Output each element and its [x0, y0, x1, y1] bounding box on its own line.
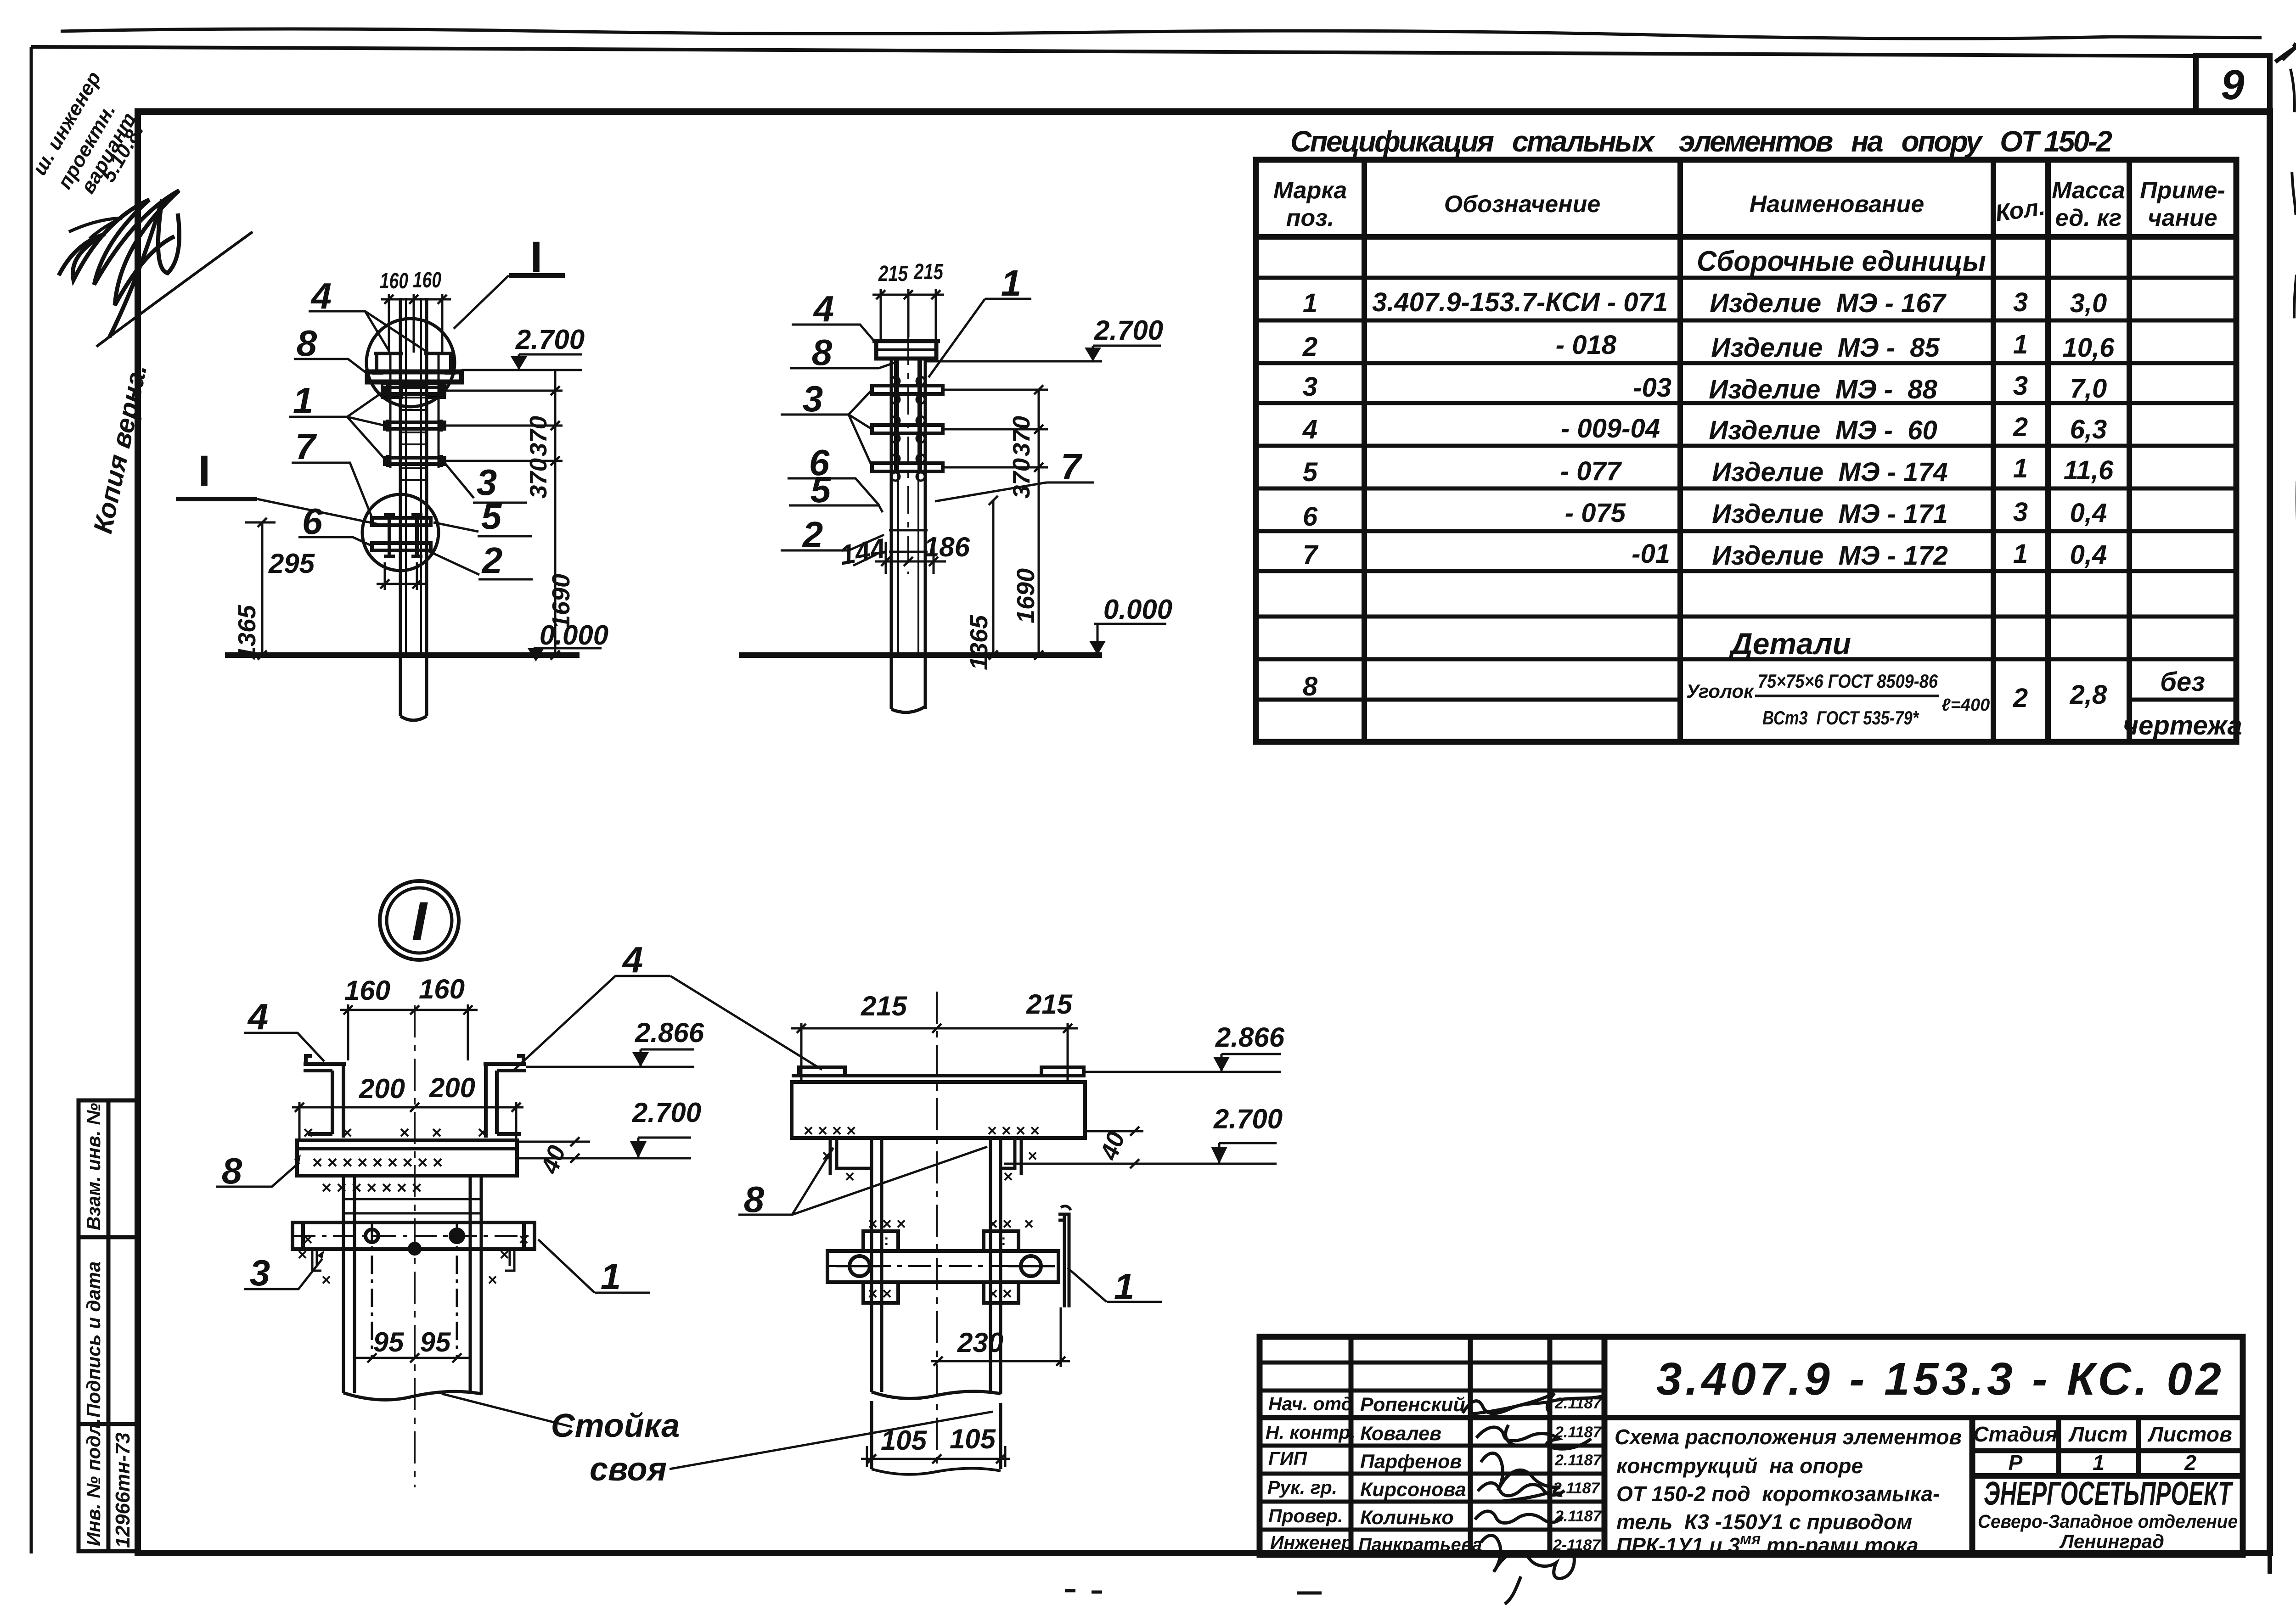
svg-text:1: 1	[2013, 454, 2028, 483]
svg-text:40: 40	[1095, 1128, 1130, 1164]
svg-text:8: 8	[297, 323, 317, 364]
svg-text:× ×: × ×	[988, 1284, 1012, 1303]
svg-text:×: ×	[303, 1123, 313, 1143]
svg-text:215: 215	[1026, 989, 1073, 1020]
svg-text:105: 105	[881, 1425, 928, 1456]
svg-text:2: 2	[802, 514, 823, 555]
svg-text:Ленинград: Ленинград	[2059, 1531, 2164, 1552]
svg-text:10,6: 10,6	[2063, 333, 2115, 363]
svg-text:7: 7	[1061, 446, 1083, 487]
svg-text:0,4: 0,4	[2070, 498, 2107, 528]
svg-text:I: I	[530, 233, 542, 281]
svg-text:× ×: × ×	[868, 1284, 892, 1303]
svg-text:2: 2	[2013, 683, 2028, 713]
svg-text:7: 7	[295, 426, 317, 467]
svg-text:2: 2	[481, 540, 503, 581]
svg-text:7: 7	[1303, 540, 1319, 570]
svg-text:2.700: 2.700	[632, 1097, 701, 1128]
svg-text:×: ×	[432, 1123, 442, 1143]
svg-text:370: 370	[525, 458, 552, 499]
svg-text:8: 8	[1303, 672, 1318, 701]
svg-text:×: ×	[321, 1270, 331, 1289]
svg-text:1: 1	[1114, 1266, 1135, 1307]
svg-text:2.1187: 2.1187	[1554, 1452, 1603, 1469]
svg-text:3,0: 3,0	[2070, 288, 2107, 318]
svg-text:Стойка: Стойка	[551, 1408, 680, 1444]
svg-text:ПРК-1У1 и 3мя тр-рами тока: ПРК-1У1 и 3мя тр-рами тока	[1616, 1531, 1919, 1557]
svg-text:5: 5	[1303, 457, 1318, 487]
svg-text:Ропенский: Ропенский	[1360, 1394, 1465, 1416]
svg-text:-03: -03	[1633, 373, 1671, 403]
svg-text:- 077: - 077	[1560, 456, 1622, 486]
svg-text:2: 2	[1302, 332, 1317, 362]
svg-text:Изделие МЭ - 60: Изделие МЭ - 60	[1709, 415, 1937, 445]
svg-text:×: ×	[342, 1123, 352, 1143]
svg-text:Северо-Западное отделение: Северо-Западное отделение	[1978, 1511, 2238, 1532]
svg-text:3: 3	[803, 378, 823, 419]
svg-text:конструкций на опоре: конструкций на опоре	[1616, 1454, 1863, 1478]
svg-text:×: ×	[1003, 1167, 1013, 1186]
svg-text:Инженер: Инженер	[1270, 1532, 1353, 1553]
svg-text:4: 4	[1302, 415, 1317, 444]
svg-text:Колинько: Колинько	[1360, 1507, 1454, 1529]
svg-text:Листов: Листов	[2147, 1422, 2232, 1446]
svg-text:370: 370	[525, 416, 552, 456]
svg-text:Масса: Масса	[2052, 177, 2125, 204]
svg-text:2.866: 2.866	[1215, 1022, 1285, 1053]
svg-text::: :	[1001, 1232, 1006, 1248]
svg-text:3: 3	[2013, 497, 2028, 527]
svg-text:Изделие МЭ - 172: Изделие МЭ - 172	[1712, 541, 1948, 571]
svg-text:× ×: × ×	[988, 1214, 1012, 1233]
svg-text:8: 8	[744, 1179, 765, 1220]
svg-text:ед. кг: ед. кг	[2055, 205, 2122, 231]
svg-text:ℓ=400: ℓ=400	[1941, 695, 1990, 715]
svg-text:8: 8	[812, 332, 833, 373]
svg-text:5: 5	[810, 469, 832, 510]
svg-text:4: 4	[622, 939, 643, 980]
svg-text:поз.: поз.	[1286, 205, 1334, 231]
svg-text:ВСт3 ГОСТ 535-79*: ВСт3 ГОСТ 535-79*	[1762, 707, 1919, 729]
svg-text:3: 3	[2013, 371, 2028, 401]
svg-text:-01: -01	[1632, 539, 1670, 569]
svg-text:1: 1	[293, 380, 314, 421]
svg-text:4: 4	[813, 288, 834, 329]
svg-text:чание: чание	[2148, 205, 2217, 231]
svg-text:1: 1	[2013, 539, 2028, 569]
svg-text:40: 40	[535, 1142, 571, 1178]
svg-text:Схема расположения элементов: Схема расположения элементов	[1615, 1425, 1962, 1449]
svg-text:Приме-: Приме-	[2140, 177, 2225, 204]
svg-text:×: ×	[1028, 1146, 1037, 1165]
svg-text:Р: Р	[2009, 1451, 2023, 1475]
svg-text:2-1187: 2-1187	[1553, 1536, 1601, 1554]
svg-text:× × × ×: × × × ×	[987, 1121, 1040, 1140]
svg-text:370: 370	[1008, 416, 1035, 456]
svg-text:своя: своя	[590, 1451, 667, 1488]
svg-text:× × × ×: × × × ×	[804, 1121, 856, 1140]
svg-text:- 075: - 075	[1565, 498, 1626, 528]
svg-text:8: 8	[222, 1150, 242, 1191]
svg-text:×: ×	[488, 1270, 497, 1289]
svg-text:- 018: - 018	[1556, 330, 1617, 360]
svg-text:144: 144	[837, 533, 888, 571]
svg-text:ЭНЕРГОСЕТЬПРОЕКТ: ЭНЕРГОСЕТЬПРОЕКТ	[1984, 1475, 2234, 1512]
svg-text:7,0: 7,0	[2070, 374, 2107, 404]
svg-text:1365: 1365	[233, 605, 261, 660]
svg-text:230: 230	[957, 1327, 1003, 1358]
svg-text:0.000: 0.000	[1103, 594, 1172, 625]
svg-text:Марка: Марка	[1273, 177, 1347, 204]
svg-text:×: ×	[519, 1230, 529, 1249]
svg-text:1690: 1690	[547, 574, 575, 629]
svg-text:Детали: Детали	[1728, 627, 1851, 661]
svg-text:Парфенов: Парфенов	[1360, 1451, 1462, 1473]
svg-text:ОТ 150-2 под короткозамыка-: ОТ 150-2 под короткозамыка-	[1616, 1482, 1940, 1506]
svg-text:Сборочные единицы: Сборочные единицы	[1697, 246, 1986, 277]
svg-text:× × × × × × ×: × × × × × × ×	[321, 1178, 422, 1198]
svg-text:1: 1	[1001, 263, 1022, 303]
svg-text:215: 215	[861, 991, 908, 1021]
svg-text:Панкратьева: Панкратьева	[1358, 1535, 1482, 1555]
svg-text:I: I	[411, 891, 428, 952]
svg-text:Взам. инв. №: Взам. инв. №	[83, 1103, 104, 1230]
svg-text:Инв. № подл.: Инв. № подл.	[83, 1418, 104, 1546]
svg-text:11,6: 11,6	[2064, 455, 2114, 485]
svg-text:3.407.9-153.7-КСИ - 071: 3.407.9-153.7-КСИ - 071	[1372, 287, 1668, 317]
svg-text:1: 1	[2013, 330, 2028, 359]
svg-text:6: 6	[302, 501, 323, 542]
svg-text:Ковалев: Ковалев	[1360, 1423, 1441, 1445]
svg-text:3: 3	[1303, 372, 1317, 402]
svg-text:215: 215	[878, 262, 908, 286]
svg-text:95: 95	[420, 1327, 451, 1357]
svg-text:ГИП: ГИП	[1268, 1448, 1308, 1469]
svg-text:×: ×	[845, 1167, 855, 1186]
svg-text:186: 186	[924, 532, 970, 562]
svg-text:Кол.: Кол.	[1994, 194, 2047, 227]
svg-text:2: 2	[2013, 412, 2028, 442]
svg-text:2.1187: 2.1187	[1554, 1424, 1603, 1441]
svg-text:×: ×	[1024, 1214, 1034, 1233]
svg-text:Провер.: Провер.	[1268, 1505, 1343, 1526]
svg-text:160: 160	[344, 975, 390, 1006]
svg-text:2: 2	[2184, 1451, 2196, 1475]
svg-text:1: 1	[601, 1256, 621, 1297]
svg-text:2.700: 2.700	[1094, 315, 1163, 346]
svg-text:1690: 1690	[1012, 568, 1040, 623]
svg-text:105: 105	[950, 1424, 996, 1454]
svg-text::: :	[884, 1232, 889, 1248]
svg-text:160: 160	[380, 269, 408, 293]
svg-text:Подпись и дата: Подпись и дата	[83, 1262, 104, 1418]
svg-text:I: I	[198, 447, 210, 495]
svg-text:200: 200	[359, 1073, 405, 1104]
svg-text:0,4: 0,4	[2070, 540, 2107, 570]
svg-text:Стадия: Стадия	[1973, 1422, 2057, 1446]
svg-text:Изделие МЭ - 167: Изделие МЭ - 167	[1710, 288, 1947, 318]
svg-text:Спецификация стальных эле: Спецификация стальных элементов на опору…	[1290, 125, 2112, 158]
svg-text:- 009-04: - 009-04	[1561, 414, 1660, 443]
svg-text:Нач. отд: Нач. отд	[1268, 1393, 1353, 1414]
svg-text:2.866: 2.866	[635, 1017, 704, 1048]
svg-text:Наименование: Наименование	[1750, 191, 1925, 218]
svg-text:Обозначение: Обозначение	[1444, 191, 1601, 218]
svg-text:2.700: 2.700	[1213, 1104, 1283, 1134]
svg-text:295: 295	[268, 548, 315, 579]
svg-text:4: 4	[247, 996, 269, 1037]
svg-text:5: 5	[481, 496, 502, 537]
svg-text:Лист: Лист	[2068, 1422, 2127, 1446]
svg-text:6,3: 6,3	[2070, 415, 2107, 444]
svg-text:×: ×	[303, 1230, 313, 1249]
svg-text:Копия верна.: Копия верна.	[88, 362, 152, 536]
svg-text:без: без	[2160, 667, 2205, 697]
svg-text:Рук. гр.: Рук. гр.	[1267, 1477, 1337, 1498]
svg-text:9: 9	[2221, 62, 2244, 108]
svg-text:Кирсонова: Кирсонова	[1360, 1479, 1466, 1501]
svg-text:чертежа: чертежа	[2123, 711, 2242, 740]
svg-text:370: 370	[1008, 458, 1035, 499]
svg-text:×: ×	[400, 1123, 410, 1143]
svg-text:4: 4	[310, 275, 332, 316]
svg-text:12966тн-73: 12966тн-73	[112, 1432, 134, 1548]
svg-text:6: 6	[1303, 502, 1318, 532]
svg-text:1: 1	[2093, 1451, 2105, 1475]
svg-text:×: ×	[478, 1123, 488, 1143]
svg-text:75×75×6 ГОСТ 8509-86: 75×75×6 ГОСТ 8509-86	[1758, 670, 1938, 692]
svg-text:Изделие МЭ - 85: Изделие МЭ - 85	[1711, 333, 1940, 363]
svg-text:Уголок: Уголок	[1686, 680, 1754, 702]
svg-text:Изделие МЭ - 171: Изделие МЭ - 171	[1712, 499, 1948, 529]
svg-text:×: ×	[500, 1245, 509, 1264]
svg-text:95: 95	[373, 1327, 405, 1357]
svg-text:2.700: 2.700	[515, 324, 585, 355]
svg-text:Изделие МЭ - 174: Изделие МЭ - 174	[1712, 457, 1948, 487]
svg-text:2,8: 2,8	[2070, 680, 2107, 710]
svg-text:Н. контр.: Н. контр.	[1266, 1422, 1356, 1443]
svg-text:3.407.9 - 153.3 - КС. 02: 3.407.9 - 153.3 - КС. 02	[1656, 1353, 2221, 1405]
svg-text:1: 1	[1303, 288, 1317, 318]
svg-text:160: 160	[419, 974, 465, 1004]
svg-text:× × ×: × × ×	[868, 1214, 906, 1233]
svg-text:Изделие МЭ - 88: Изделие МЭ - 88	[1709, 375, 1937, 404]
svg-text:215: 215	[913, 260, 944, 284]
svg-text:× × × × × × × × ×: × × × × × × × × ×	[312, 1153, 443, 1172]
svg-text:1365: 1365	[965, 615, 993, 670]
svg-text:200: 200	[429, 1072, 475, 1103]
svg-text:160: 160	[413, 268, 441, 292]
svg-text:тель К3 -150У1 с приводом: тель К3 -150У1 с приводом	[1616, 1510, 1912, 1534]
svg-text:3: 3	[250, 1252, 270, 1293]
svg-text:3: 3	[2013, 287, 2028, 317]
